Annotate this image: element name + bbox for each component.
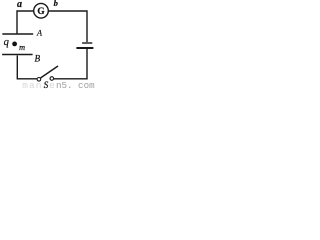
svg-text:a: a [17,0,22,10]
battery plate long [76,47,93,49]
particle dot [12,42,17,47]
svg-text:G: G [37,7,44,17]
galvanometer U1 [34,3,49,18]
switch S right contact [50,77,54,81]
svg-text:b: b [54,0,58,8]
switch S left contact [37,78,41,82]
svg-text:n5. com: n5. com [56,80,95,90]
svg-text:q: q [4,37,9,48]
svg-text:S: S [44,80,49,90]
capacitor plate B [2,54,32,56]
svg-text:B: B [35,53,41,63]
svg-text:A: A [36,29,43,38]
svg-text:m: m [19,43,25,52]
wire battery to bottom-right corner to switch [54,49,87,79]
wire galvanometer to top-right corner down to battery [48,11,87,42]
capacitor plate A [2,33,33,35]
battery plate short [82,42,92,44]
wire switch to bottom-left corner up to plate B [17,56,37,79]
wire top-left to galvanometer [17,11,34,34]
switch S lever [41,66,59,78]
